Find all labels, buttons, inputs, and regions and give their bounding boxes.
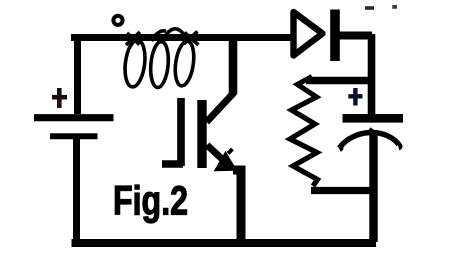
diode D1 cathode bar — [330, 10, 340, 62]
stray ink mark 2 — [392, 5, 397, 9]
capacitor C1 plus label — [348, 88, 362, 106]
diode D1 triangle — [294, 12, 323, 56]
wire emitter to bottom rail — [233, 170, 241, 240]
wire right vertical upper (diode to capacitor +) — [368, 34, 376, 115]
transistor Q1 gate lead — [162, 160, 183, 167]
wire diode to right rail — [339, 32, 372, 40]
wire left vertical lower (battery - to bottom rail) — [73, 137, 80, 240]
transistor Q1 gate bar — [177, 98, 185, 166]
battery BT1 plus label — [52, 88, 67, 108]
capacitor C1 top plate — [343, 114, 404, 123]
transistor Q1 emitter diagonal — [207, 145, 229, 166]
transistor Q1 emitter arrow — [215, 153, 236, 171]
wire left vertical upper (top wire to battery +) — [74, 36, 81, 114]
transistor Q1 collector diagonal — [207, 92, 235, 122]
inductor L1 — [123, 29, 199, 88]
wire resistor top (to right rail) — [306, 77, 373, 84]
resistor R1 zigzag — [290, 77, 318, 187]
wire right vertical lower (capacitor to bottom rail) — [369, 133, 377, 242]
wire bottom rail — [72, 239, 377, 247]
wire resistor bottom (to right rail) — [311, 187, 375, 194]
stray ink mark 1 — [365, 6, 374, 10]
svg-text:Fig.2: Fig.2 — [113, 178, 188, 224]
capacitor C1 curved bottom plate — [340, 132, 400, 149]
node output terminal o — [113, 16, 122, 25]
battery BT1 bottom plate — [50, 133, 98, 139]
transistor Q1 body bar — [197, 100, 206, 168]
wire collector drop (top wire down to transistor) — [229, 39, 238, 94]
battery BT1 top plate — [34, 114, 114, 121]
wire top horizontal (battery to diode) — [75, 34, 291, 41]
